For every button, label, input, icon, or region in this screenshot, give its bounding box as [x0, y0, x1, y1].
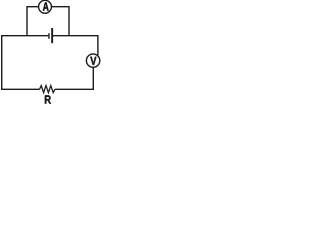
battery cell long plate (positive) — [51, 28, 53, 43]
wire right edge down to voltmeter — [97, 35, 99, 55]
wire top right segment (battery to top-right corner) — [52, 35, 98, 37]
wire ammeter branch left horizontal — [26, 6, 38, 8]
wire top left segment (to battery) — [1, 35, 49, 37]
resistor R zigzag — [40, 86, 55, 93]
wire below voltmeter to bottom — [92, 67, 94, 89]
wire bottom left segment (to resistor) — [1, 88, 40, 90]
wire ammeter branch left riser — [26, 7, 28, 36]
voltmeter V1 circle — [86, 54, 99, 67]
wire ammeter branch right horizontal — [52, 6, 69, 8]
ammeter label A — [43, 2, 49, 10]
battery cell short plate (negative) — [48, 33, 49, 39]
ammeter A1 circle — [39, 0, 52, 13]
resistor label R — [45, 95, 51, 103]
wire left edge of main loop — [1, 36, 3, 90]
wire ammeter branch right riser — [68, 6, 70, 36]
wire bottom right segment (resistor to voltmeter riser) — [55, 88, 94, 90]
voltmeter label V — [90, 57, 96, 65]
